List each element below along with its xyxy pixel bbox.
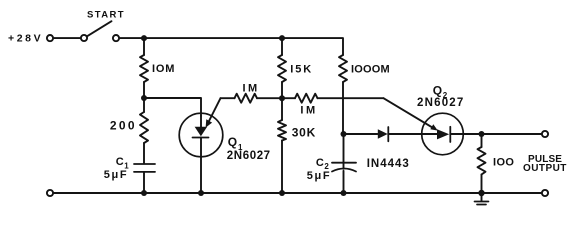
svg-text:2N6027: 2N6027: [417, 97, 464, 109]
resistor R8 100: [478, 134, 515, 193]
wire top rail: [120, 38, 343, 55]
wire node E to diode: [344, 133, 378, 135]
capacitor C2 5uF: [307, 134, 356, 193]
terminal T3 (pulse output top): [542, 131, 548, 137]
terminal T1 (+28V input): [47, 35, 53, 41]
svg-text:IN4443: IN4443: [367, 158, 410, 170]
node C (10M / 200 / Q1 anode): [141, 95, 147, 101]
resistor R2 200: [110, 98, 148, 163]
svg-text:C: C: [116, 156, 124, 168]
svg-text:IOM: IOM: [152, 63, 175, 75]
resistor R4 15K: [278, 38, 313, 98]
switch S1 blade: [87, 21, 112, 36]
svg-text:+28V: +28V: [8, 33, 43, 45]
resistor R1 10M: [140, 38, 175, 98]
transistor Q1 2N6027: [179, 113, 270, 193]
node A (top rail / 10M): [141, 35, 147, 41]
node I (bottom rail / 30K): [279, 190, 285, 196]
wire Q2 cathode to output: [463, 133, 541, 135]
svg-text:IM: IM: [300, 105, 317, 117]
ground GND: [475, 193, 489, 205]
node D (15K / 30K / 1M / 1M): [279, 95, 285, 101]
svg-text:IM: IM: [243, 82, 260, 94]
svg-text:5μF: 5μF: [104, 169, 128, 181]
svg-text:Q: Q: [228, 135, 237, 149]
node K (bottom rail / 100 / ground): [478, 190, 484, 196]
svg-text:Q: Q: [433, 84, 442, 98]
label PULSE OUTPUT: [523, 154, 567, 174]
svg-text:START: START: [87, 10, 125, 21]
svg-text:I5K: I5K: [290, 64, 313, 76]
node E (1000M / C2 / diode): [341, 131, 347, 137]
capacitor C1 5uF: [104, 156, 155, 193]
diode D1 1N4443: [367, 127, 422, 170]
svg-text:IOO: IOO: [493, 157, 514, 169]
wire Q2 gate diagonal: [384, 98, 438, 130]
node G (bottom rail / C1): [141, 190, 147, 196]
transistor Q2 2N6027: [417, 84, 464, 155]
svg-text:5μF: 5μF: [307, 170, 331, 182]
svg-text:IOOOM: IOOOM: [351, 64, 390, 76]
svg-text:200: 200: [110, 118, 137, 132]
wire bottom rail: [54, 192, 542, 194]
terminal T2 (switch output): [113, 35, 119, 41]
node J (bottom rail / C2): [341, 190, 347, 196]
switch S1 START pivot: [81, 35, 87, 41]
wire Q1 gate diagonal: [206, 98, 221, 127]
resistor R6 1M (Q2 gate): [282, 94, 384, 117]
wire node C to Q1 anode: [144, 98, 201, 116]
resistor R7 1000M: [339, 55, 390, 134]
wire T1 to switch pivot: [54, 37, 81, 39]
node B (top rail / 15K): [279, 35, 285, 41]
resistor R3 1M (Q1 gate): [221, 82, 280, 102]
svg-text:C: C: [316, 157, 324, 169]
node F (output / 100): [479, 131, 485, 137]
svg-text:30K: 30K: [292, 125, 316, 139]
terminal T5 (pulse output bottom): [542, 190, 548, 196]
resistor R5 30K: [278, 98, 316, 193]
svg-text:OUTPUT: OUTPUT: [523, 163, 567, 174]
node H (bottom rail / Q1 cathode): [198, 190, 204, 196]
svg-text:2N6027: 2N6027: [227, 150, 271, 162]
terminal T4 (common bottom-left): [47, 190, 53, 196]
